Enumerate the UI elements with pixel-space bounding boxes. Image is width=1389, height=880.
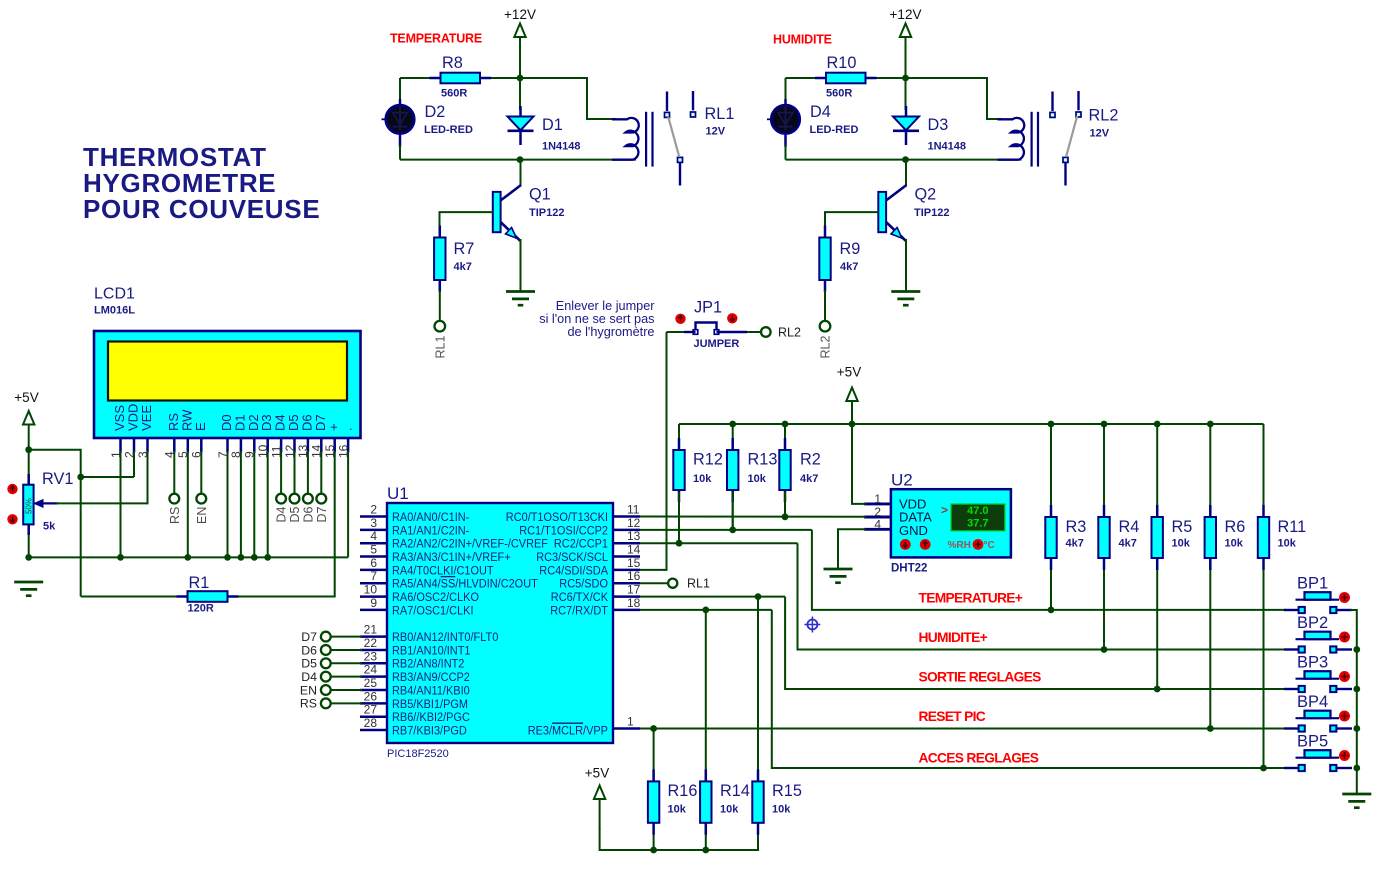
resistor R12 10k xyxy=(673,424,723,545)
svg-text:560R: 560R xyxy=(826,88,852,100)
svg-text:R14: R14 xyxy=(720,782,750,800)
svg-text:JUMPER: JUMPER xyxy=(694,338,740,350)
svg-text:BP4: BP4 xyxy=(1297,693,1328,711)
svg-text:RS: RS xyxy=(168,507,182,524)
svg-text:RC6/TX/CK: RC6/TX/CK xyxy=(551,590,609,604)
wires LCD control/data pins to terminals xyxy=(174,451,321,494)
svg-text:1: 1 xyxy=(627,715,634,729)
junction R4/BP2 row xyxy=(1101,646,1108,653)
svg-text:VEE: VEE xyxy=(139,405,154,431)
ground (under Q2) xyxy=(891,292,920,306)
svg-text:RA5/AN4/SS/HLVDIN/C2OUT: RA5/AN4/SS/HLVDIN/C2OUT xyxy=(392,577,538,591)
svg-text:24: 24 xyxy=(364,663,378,677)
svg-text:5: 5 xyxy=(370,543,377,557)
svg-text:TEMPERATURE+: TEMPERATURE+ xyxy=(919,590,1023,605)
svg-text:RC3/SCK/SCL: RC3/SCK/SCL xyxy=(536,550,608,564)
svg-text:RA2/AN2/C2IN+/VREF-/CVREF: RA2/AN2/C2IN+/VREF-/CVREF xyxy=(392,537,548,551)
svg-text:RA0/AN0/C1IN-: RA0/AN0/C1IN- xyxy=(392,510,469,524)
junction RV1/ground rail xyxy=(25,554,32,561)
relay RL1 coil xyxy=(612,112,654,167)
junction RC6/R15 xyxy=(755,593,762,600)
wire net SORTIE REGLAGES : U1 RC6 (pin17) / R15 / BP3 xyxy=(640,597,1286,689)
svg-text:R16: R16 xyxy=(668,782,698,800)
sensor U2 DHT22 xyxy=(864,471,1011,575)
svg-text:RB2/AN8/INT2: RB2/AN8/INT2 xyxy=(392,657,465,671)
svg-text:6: 6 xyxy=(370,556,377,570)
svg-text:RC4/SDI/SDA: RC4/SDI/SDA xyxy=(539,563,608,577)
svg-text:R15: R15 xyxy=(772,782,802,800)
resistor R11 10k xyxy=(1258,424,1306,768)
label ACCES REGLAGES xyxy=(919,750,1039,765)
wire terminal EN to U1 RB4 xyxy=(331,689,362,691)
svg-text:1N4148: 1N4148 xyxy=(928,141,967,153)
wire terminal D7 to U1 RB0 xyxy=(331,636,362,638)
svg-text:R11: R11 xyxy=(1278,518,1307,536)
wire R7 to terminal RL1 xyxy=(439,290,441,321)
svg-text:+12V: +12V xyxy=(504,7,536,22)
svg-text:HUMIDITE: HUMIDITE xyxy=(773,33,832,47)
push button BP2 xyxy=(1284,614,1352,653)
wire +5V to RV1 and LCD VDD branch xyxy=(29,450,134,597)
power +12V (right) xyxy=(890,7,922,79)
svg-text:13: 13 xyxy=(627,529,641,543)
svg-text:RESET PIC: RESET PIC xyxy=(919,709,986,724)
svg-text:RC0/T1OSO/T13CKI: RC0/T1OSO/T13CKI xyxy=(506,510,608,524)
svg-text:RL2: RL2 xyxy=(778,326,801,340)
svg-text:Q2: Q2 xyxy=(915,186,937,204)
resistor R4 4k7 xyxy=(1098,424,1139,650)
svg-text:D7: D7 xyxy=(315,506,329,522)
resistor R1 120R xyxy=(177,574,239,615)
svg-text:>: > xyxy=(941,503,948,517)
svg-text:D4: D4 xyxy=(810,103,831,121)
svg-text:RV1: RV1 xyxy=(42,470,73,488)
resistor R3 4k7 xyxy=(1045,424,1086,610)
terminal RS (LCD pin4) xyxy=(168,494,182,524)
svg-text:10k: 10k xyxy=(668,804,687,816)
power +5V (bottom) xyxy=(585,766,609,831)
terminal D4 (LCD pin11) xyxy=(275,494,289,523)
svg-text:R6: R6 xyxy=(1225,518,1246,536)
junction +5V rail top of RV1 xyxy=(25,446,32,453)
resistor R7 xyxy=(434,226,474,293)
svg-text:LED-RED: LED-RED xyxy=(810,124,859,136)
svg-text:RC1/T1OSI/CCP2: RC1/T1OSI/CCP2 xyxy=(519,523,608,537)
svg-text:E: E xyxy=(193,422,208,431)
svg-text:2: 2 xyxy=(370,503,377,517)
svg-text:BP5: BP5 xyxy=(1297,733,1328,751)
wire R9 to terminal RL2 xyxy=(824,290,826,321)
wire R8 to D2 anode xyxy=(399,78,401,102)
junction rail pin7 xyxy=(224,554,231,561)
power +12V (left) xyxy=(504,7,536,78)
note text enlever le jumper xyxy=(539,299,655,339)
svg-text:R13: R13 xyxy=(748,451,778,469)
svg-text:15: 15 xyxy=(627,556,641,570)
wire +5V rail (middle-right) xyxy=(679,423,1264,425)
svg-text:RB5/KBI1/PGM: RB5/KBI1/PGM xyxy=(392,697,468,711)
wire RV1 wiper to LCD VEE (pin3) xyxy=(56,451,148,503)
wire +12V rail left / R8 row xyxy=(400,38,520,110)
junction +5V rail R13 xyxy=(729,421,736,428)
svg-text:POUR COUVEUSE: POUR COUVEUSE xyxy=(83,194,320,224)
svg-text:HUMIDITE+: HUMIDITE+ xyxy=(919,630,988,645)
U1 left pin stubs and numbers xyxy=(360,503,387,731)
svg-text:10k: 10k xyxy=(1225,538,1244,550)
svg-text:10: 10 xyxy=(364,583,378,597)
svg-text:R10: R10 xyxy=(827,54,857,72)
svg-text:4k7: 4k7 xyxy=(800,473,818,485)
svg-text:22: 22 xyxy=(364,636,378,650)
wire +5V to U2 VDD (pin1) xyxy=(852,400,866,504)
wire net ACCES REGLAGES : U1 RC7 (pin18) / R14 / BP5 xyxy=(640,610,1286,768)
svg-text:4: 4 xyxy=(874,518,881,532)
svg-text:12: 12 xyxy=(627,516,641,530)
svg-text:RL1: RL1 xyxy=(687,577,710,591)
junction VDD branch xyxy=(77,474,84,481)
svg-text:D7: D7 xyxy=(301,630,317,644)
svg-text:R4: R4 xyxy=(1119,518,1140,536)
svg-text:ACCES REGLAGES: ACCES REGLAGES xyxy=(919,750,1039,765)
junction +5V rail U2 VDD feed xyxy=(849,421,856,428)
ground (under Q1) xyxy=(506,292,535,306)
LED D2 xyxy=(386,99,473,147)
wire +5V bottom rail xyxy=(600,828,758,850)
junction +5V rail R2 xyxy=(782,421,789,428)
svg-text:RB4/AN11/KBI0: RB4/AN11/KBI0 xyxy=(392,683,470,697)
svg-text:D6: D6 xyxy=(302,506,316,522)
junction R3/BP1 row xyxy=(1048,607,1055,614)
push button BP1 xyxy=(1284,575,1352,614)
svg-text:10k: 10k xyxy=(772,804,791,816)
svg-text:RL1: RL1 xyxy=(433,336,447,359)
svg-text:EN: EN xyxy=(300,683,317,697)
svg-text:4: 4 xyxy=(370,529,377,543)
svg-text:560R: 560R xyxy=(441,88,467,100)
sheet origin marker (blue crosshair) xyxy=(804,617,820,633)
svg-text:RC7/RX/DT: RC7/RX/DT xyxy=(550,603,608,617)
junction bottom rail R14 xyxy=(702,847,709,854)
resistor R13 10k xyxy=(727,424,777,531)
wire terminal RS to U1 RB5 xyxy=(331,702,362,704)
svg-text:R2: R2 xyxy=(800,451,821,469)
junction bottom rail R16 xyxy=(650,847,657,854)
svg-text:RL2: RL2 xyxy=(1089,107,1119,125)
svg-text:D4: D4 xyxy=(301,670,317,684)
terminal RL2 (to relay coil net) xyxy=(819,321,833,359)
power +5V (middle, for U2 and pull-ups) xyxy=(837,365,861,425)
svg-text:D3: D3 xyxy=(928,116,949,134)
terminal D5 (U1 RB2) xyxy=(301,657,330,671)
push button BP5 xyxy=(1284,733,1352,772)
svg-text:120R: 120R xyxy=(188,603,214,615)
title text THERMOSTAT HYGROMETRE POUR COUVEUSE xyxy=(83,142,320,224)
svg-text:RE3/MCLR/VPP: RE3/MCLR/VPP xyxy=(528,723,608,737)
svg-text:14: 14 xyxy=(627,543,641,557)
wire net DATA : U1 RC0 (pin11) to U2 DATA with R2 pull-up xyxy=(640,492,866,517)
svg-text:RL1: RL1 xyxy=(705,105,735,123)
label SORTIE REGLAGES xyxy=(919,669,1042,684)
svg-text:BP2: BP2 xyxy=(1297,614,1328,632)
svg-text:TIP122: TIP122 xyxy=(529,207,564,219)
svg-text:U1: U1 xyxy=(387,484,409,503)
svg-text:%RH: %RH xyxy=(948,540,971,551)
svg-text:7: 7 xyxy=(370,569,377,583)
svg-text:TEMPERATURE: TEMPERATURE xyxy=(390,32,482,46)
resistor R16 10k (pull-up MCLR) xyxy=(648,729,697,851)
wire terminal D4 to U1 RB3 xyxy=(331,676,362,678)
svg-text:3: 3 xyxy=(370,516,377,530)
svg-text:SORTIE REGLAGES: SORTIE REGLAGES xyxy=(919,669,1042,684)
terminal RL2 (jumper output) xyxy=(761,326,801,340)
svg-text:de l'hygromètre: de l'hygromètre xyxy=(567,325,654,339)
svg-text:RA1/AN1/C2IN-: RA1/AN1/C2IN- xyxy=(392,523,469,537)
wire bottom row D4/D3/Q2/relay coil (right) xyxy=(786,145,1022,160)
wire net HUMIDITE+ : U1 RC2 (pin13) / R12 / BP2 xyxy=(640,492,1286,650)
svg-text:18: 18 xyxy=(627,596,641,610)
svg-text:26: 26 xyxy=(364,689,378,703)
wire R10 to D4 anode xyxy=(785,78,787,102)
wire net TEMPERATURE+ : U1 RC1 (pin12) / R13 / BP1 xyxy=(640,492,1286,610)
svg-text:23: 23 xyxy=(364,649,378,663)
junction R11/BP5 row xyxy=(1260,765,1267,772)
junction +5V rail R6 xyxy=(1207,421,1214,428)
terminal EN (LCD pin6) xyxy=(195,494,209,524)
svg-text:+5V: +5V xyxy=(837,365,861,380)
microcontroller U1 PIC18F2520 xyxy=(387,484,613,760)
LED D4 flat tick xyxy=(767,118,772,120)
relay RL1 contacts xyxy=(665,91,735,186)
svg-text:RC2/CCP1: RC2/CCP1 xyxy=(554,537,608,551)
resistor R15 10k (pull-up RC6) xyxy=(752,597,802,850)
junction +5V rail R4 xyxy=(1101,421,1108,428)
LED D2 flat tick xyxy=(382,118,387,120)
wire BP common right rail to ground xyxy=(1350,610,1357,794)
junction +12V/R10/D3 xyxy=(902,75,909,82)
svg-text:R8: R8 xyxy=(442,54,463,72)
wire terminal D6 to U1 RB1 xyxy=(331,649,362,651)
terminal RS (U1 RB5) xyxy=(300,697,331,711)
svg-text:RB6//KBI2/PGC: RB6//KBI2/PGC xyxy=(392,710,470,724)
svg-text:1N4148: 1N4148 xyxy=(542,141,581,153)
junction rail pin9 xyxy=(251,554,258,561)
junction right rail BP5 xyxy=(1353,765,1360,772)
terminal D4 (U1 RB3) xyxy=(301,670,330,684)
LCD display LCD1 LM016L xyxy=(94,286,361,439)
svg-text:10k: 10k xyxy=(720,804,739,816)
svg-text:37.7: 37.7 xyxy=(967,518,988,530)
junction R6/BP4 row xyxy=(1207,725,1214,732)
wire U2 GND (pin4) to ground xyxy=(838,529,866,570)
svg-text:D4: D4 xyxy=(275,506,289,522)
wire R1 row xyxy=(81,596,335,598)
svg-text:12V: 12V xyxy=(1090,128,1110,140)
junction +5V rail R5 xyxy=(1154,421,1161,428)
svg-text:10k: 10k xyxy=(748,473,767,485)
svg-text:4k7: 4k7 xyxy=(1119,538,1137,550)
transistor Q1 TIP122 xyxy=(493,160,565,241)
diode D1 1N4148 xyxy=(508,106,581,153)
svg-text:°C: °C xyxy=(984,540,995,551)
junction R5/BP3 row xyxy=(1154,686,1161,693)
svg-text:RA4/T0CLKI/C1OUT: RA4/T0CLKI/C1OUT xyxy=(392,563,494,577)
wire terminal D5 to U1 RB2 xyxy=(331,662,362,664)
potentiometer RV1 5k xyxy=(7,450,73,558)
svg-text:R5: R5 xyxy=(1172,518,1193,536)
label HUMIDITE xyxy=(773,33,832,47)
svg-text:RS: RS xyxy=(300,697,317,711)
wire JP1 right to terminal RL2 xyxy=(717,331,761,333)
label TEMPERATURE xyxy=(390,32,482,46)
svg-text:R1: R1 xyxy=(189,574,210,592)
svg-text:R3: R3 xyxy=(1066,518,1087,536)
svg-text:4k7: 4k7 xyxy=(1066,538,1084,550)
svg-text:16: 16 xyxy=(627,569,641,583)
wire bottom row D2/D1/Q1/relay coil (left) xyxy=(400,145,636,160)
svg-text:10k: 10k xyxy=(693,473,712,485)
svg-text:D5: D5 xyxy=(301,657,317,671)
resistor R2 4k7 xyxy=(779,424,821,519)
svg-text:RB1/AN10/INT1: RB1/AN10/INT1 xyxy=(392,643,471,657)
junction right rail BP3 xyxy=(1353,686,1360,693)
wire Q2 emitter to ground xyxy=(905,239,907,292)
resistor R8 xyxy=(430,54,492,100)
svg-text:RB7/KBI3/PGD: RB7/KBI3/PGD xyxy=(392,723,467,737)
svg-text:R12: R12 xyxy=(693,451,723,469)
svg-text:RA7/OSC1/CLKI: RA7/OSC1/CLKI xyxy=(392,603,474,617)
wire LCD pin15 to R1 xyxy=(310,451,335,597)
wire LCD pin2 VDD down xyxy=(133,451,135,477)
terminal D7 (LCD pin14) xyxy=(315,494,329,523)
junction right rail BP2 xyxy=(1353,646,1360,653)
wire Q1 base to R7 xyxy=(440,212,493,230)
svg-text:si l'on ne se sert pas: si l'on ne se sert pas xyxy=(539,312,654,326)
resistor R9 xyxy=(819,226,860,293)
svg-text:+5V: +5V xyxy=(585,766,609,781)
label HUMIDITE+ xyxy=(919,630,988,645)
resistor R14 10k (pull-up RC7) xyxy=(700,610,750,850)
svg-text:4k7: 4k7 xyxy=(840,261,858,273)
push button BP4 xyxy=(1284,693,1352,732)
svg-text:9: 9 xyxy=(370,596,377,610)
LED D4 xyxy=(771,99,858,147)
svg-text:Enlever le jumper: Enlever le jumper xyxy=(556,299,655,313)
svg-text:11: 11 xyxy=(627,503,640,517)
svg-text:R7: R7 xyxy=(454,240,475,258)
ground (under U2) xyxy=(824,569,853,583)
junction +12V/R8/D1 xyxy=(517,75,524,82)
jumper JP1 xyxy=(675,299,739,351)
junction rail pin1 xyxy=(117,554,124,561)
junction RC2/R12 xyxy=(676,540,683,547)
svg-text:LM016L: LM016L xyxy=(94,305,135,317)
svg-text:PIC18F2520: PIC18F2520 xyxy=(387,748,449,760)
terminal RL1 (U1 RC5 pin16) xyxy=(640,577,710,591)
svg-text:BP1: BP1 xyxy=(1297,575,1328,593)
svg-text:Q1: Q1 xyxy=(529,186,551,204)
wire relay RL2 coil feed xyxy=(906,78,1002,119)
svg-text:4k7: 4k7 xyxy=(454,261,472,273)
svg-text:D2: D2 xyxy=(425,103,446,121)
svg-text:27: 27 xyxy=(364,703,378,717)
wire +12V rail right / R10 row xyxy=(786,38,906,110)
svg-text:10k: 10k xyxy=(1278,538,1297,550)
LCD pin leads and numbers 1-16 xyxy=(109,438,351,458)
svg-text:LED-RED: LED-RED xyxy=(424,124,473,136)
resistor R5 10k xyxy=(1152,424,1193,689)
terminal D6 (U1 RB1) xyxy=(301,643,330,657)
terminal D7 (U1 RB0) xyxy=(301,630,330,644)
svg-text:47.0: 47.0 xyxy=(967,505,988,517)
junction +5V rail R3 xyxy=(1048,421,1055,428)
terminal D6 (LCD pin13) xyxy=(302,494,316,523)
svg-text:TIP122: TIP122 xyxy=(914,207,949,219)
terminal RL1 (to relay coil net) xyxy=(433,321,447,359)
label RESET PIC xyxy=(919,709,986,724)
junction RC1/R13 xyxy=(729,527,736,534)
svg-text:5k: 5k xyxy=(43,521,56,533)
svg-text:12V: 12V xyxy=(706,126,726,138)
diode D3 1N4148 xyxy=(893,106,966,153)
junction RC7/R14 xyxy=(702,607,709,614)
svg-text:17: 17 xyxy=(627,583,641,597)
svg-text:LCD1: LCD1 xyxy=(94,286,135,303)
svg-text:10k: 10k xyxy=(1172,538,1191,550)
svg-text:+5V: +5V xyxy=(14,390,38,405)
resistor R10 xyxy=(815,54,877,100)
svg-text:JP1: JP1 xyxy=(694,299,722,317)
power +5V (left) xyxy=(14,390,38,450)
relay RL2 contacts xyxy=(1050,91,1118,186)
svg-text:D6: D6 xyxy=(301,643,317,657)
wire relay RL1 coil feed xyxy=(520,78,616,119)
svg-text:D5: D5 xyxy=(288,506,302,522)
label TEMPERATURE+ xyxy=(919,590,1023,605)
svg-text:1: 1 xyxy=(874,492,881,506)
svg-text:RL2: RL2 xyxy=(819,336,833,359)
terminal D5 (LCD pin12) xyxy=(288,494,302,523)
resistor R6 10k xyxy=(1205,424,1246,729)
junction rail pin8 xyxy=(238,554,245,561)
junction RESET/R16 xyxy=(650,725,657,732)
svg-text:BP3: BP3 xyxy=(1297,654,1328,672)
svg-text:RB3/AN9/CCP2: RB3/AN9/CCP2 xyxy=(392,670,470,684)
ground (buttons common) xyxy=(1342,794,1371,808)
svg-text:EN: EN xyxy=(195,507,209,524)
svg-text:RC5/SDO: RC5/SDO xyxy=(559,577,608,591)
transistor Q2 TIP122 xyxy=(878,160,949,241)
junction D1/Q1 collector/coil row xyxy=(517,156,524,163)
wire LCD ground rail xyxy=(29,451,348,557)
junction right rail BP4 xyxy=(1353,725,1360,732)
junction D3/Q2 collector/coil row xyxy=(902,156,909,163)
svg-text:D1: D1 xyxy=(542,116,563,134)
svg-text:RA3/AN3/C1IN+/VREF+: RA3/AN3/C1IN+/VREF+ xyxy=(392,550,511,564)
svg-text:RA6/OSC2/CLKO: RA6/OSC2/CLKO xyxy=(392,590,479,604)
svg-text:+12V: +12V xyxy=(890,7,922,22)
junction rail pin5 xyxy=(184,554,191,561)
svg-text:RB0/AN12/INT0/FLT0: RB0/AN12/INT0/FLT0 xyxy=(392,630,498,644)
svg-text:25: 25 xyxy=(364,676,378,690)
wire JP1 left to U1 RC4 (pin15) xyxy=(640,332,696,570)
svg-text:R9: R9 xyxy=(840,240,861,258)
svg-text:DHT22: DHT22 xyxy=(891,563,927,575)
svg-text:GND: GND xyxy=(899,523,928,538)
relay RL2 coil xyxy=(998,112,1040,167)
svg-text:U2: U2 xyxy=(891,471,913,490)
svg-text:21: 21 xyxy=(364,623,378,637)
ground (under RV1) xyxy=(14,582,43,596)
